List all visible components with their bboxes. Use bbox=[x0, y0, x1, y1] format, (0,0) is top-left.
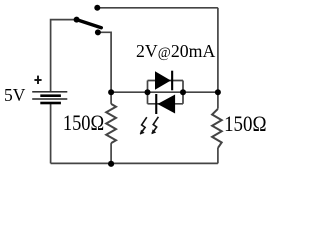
svg-text:150Ω: 150Ω bbox=[63, 110, 104, 135]
svg-text:2V@20mA: 2V@20mA bbox=[136, 41, 215, 61]
svg-text:5V: 5V bbox=[4, 85, 25, 105]
svg-text:150Ω: 150Ω bbox=[224, 111, 266, 136]
